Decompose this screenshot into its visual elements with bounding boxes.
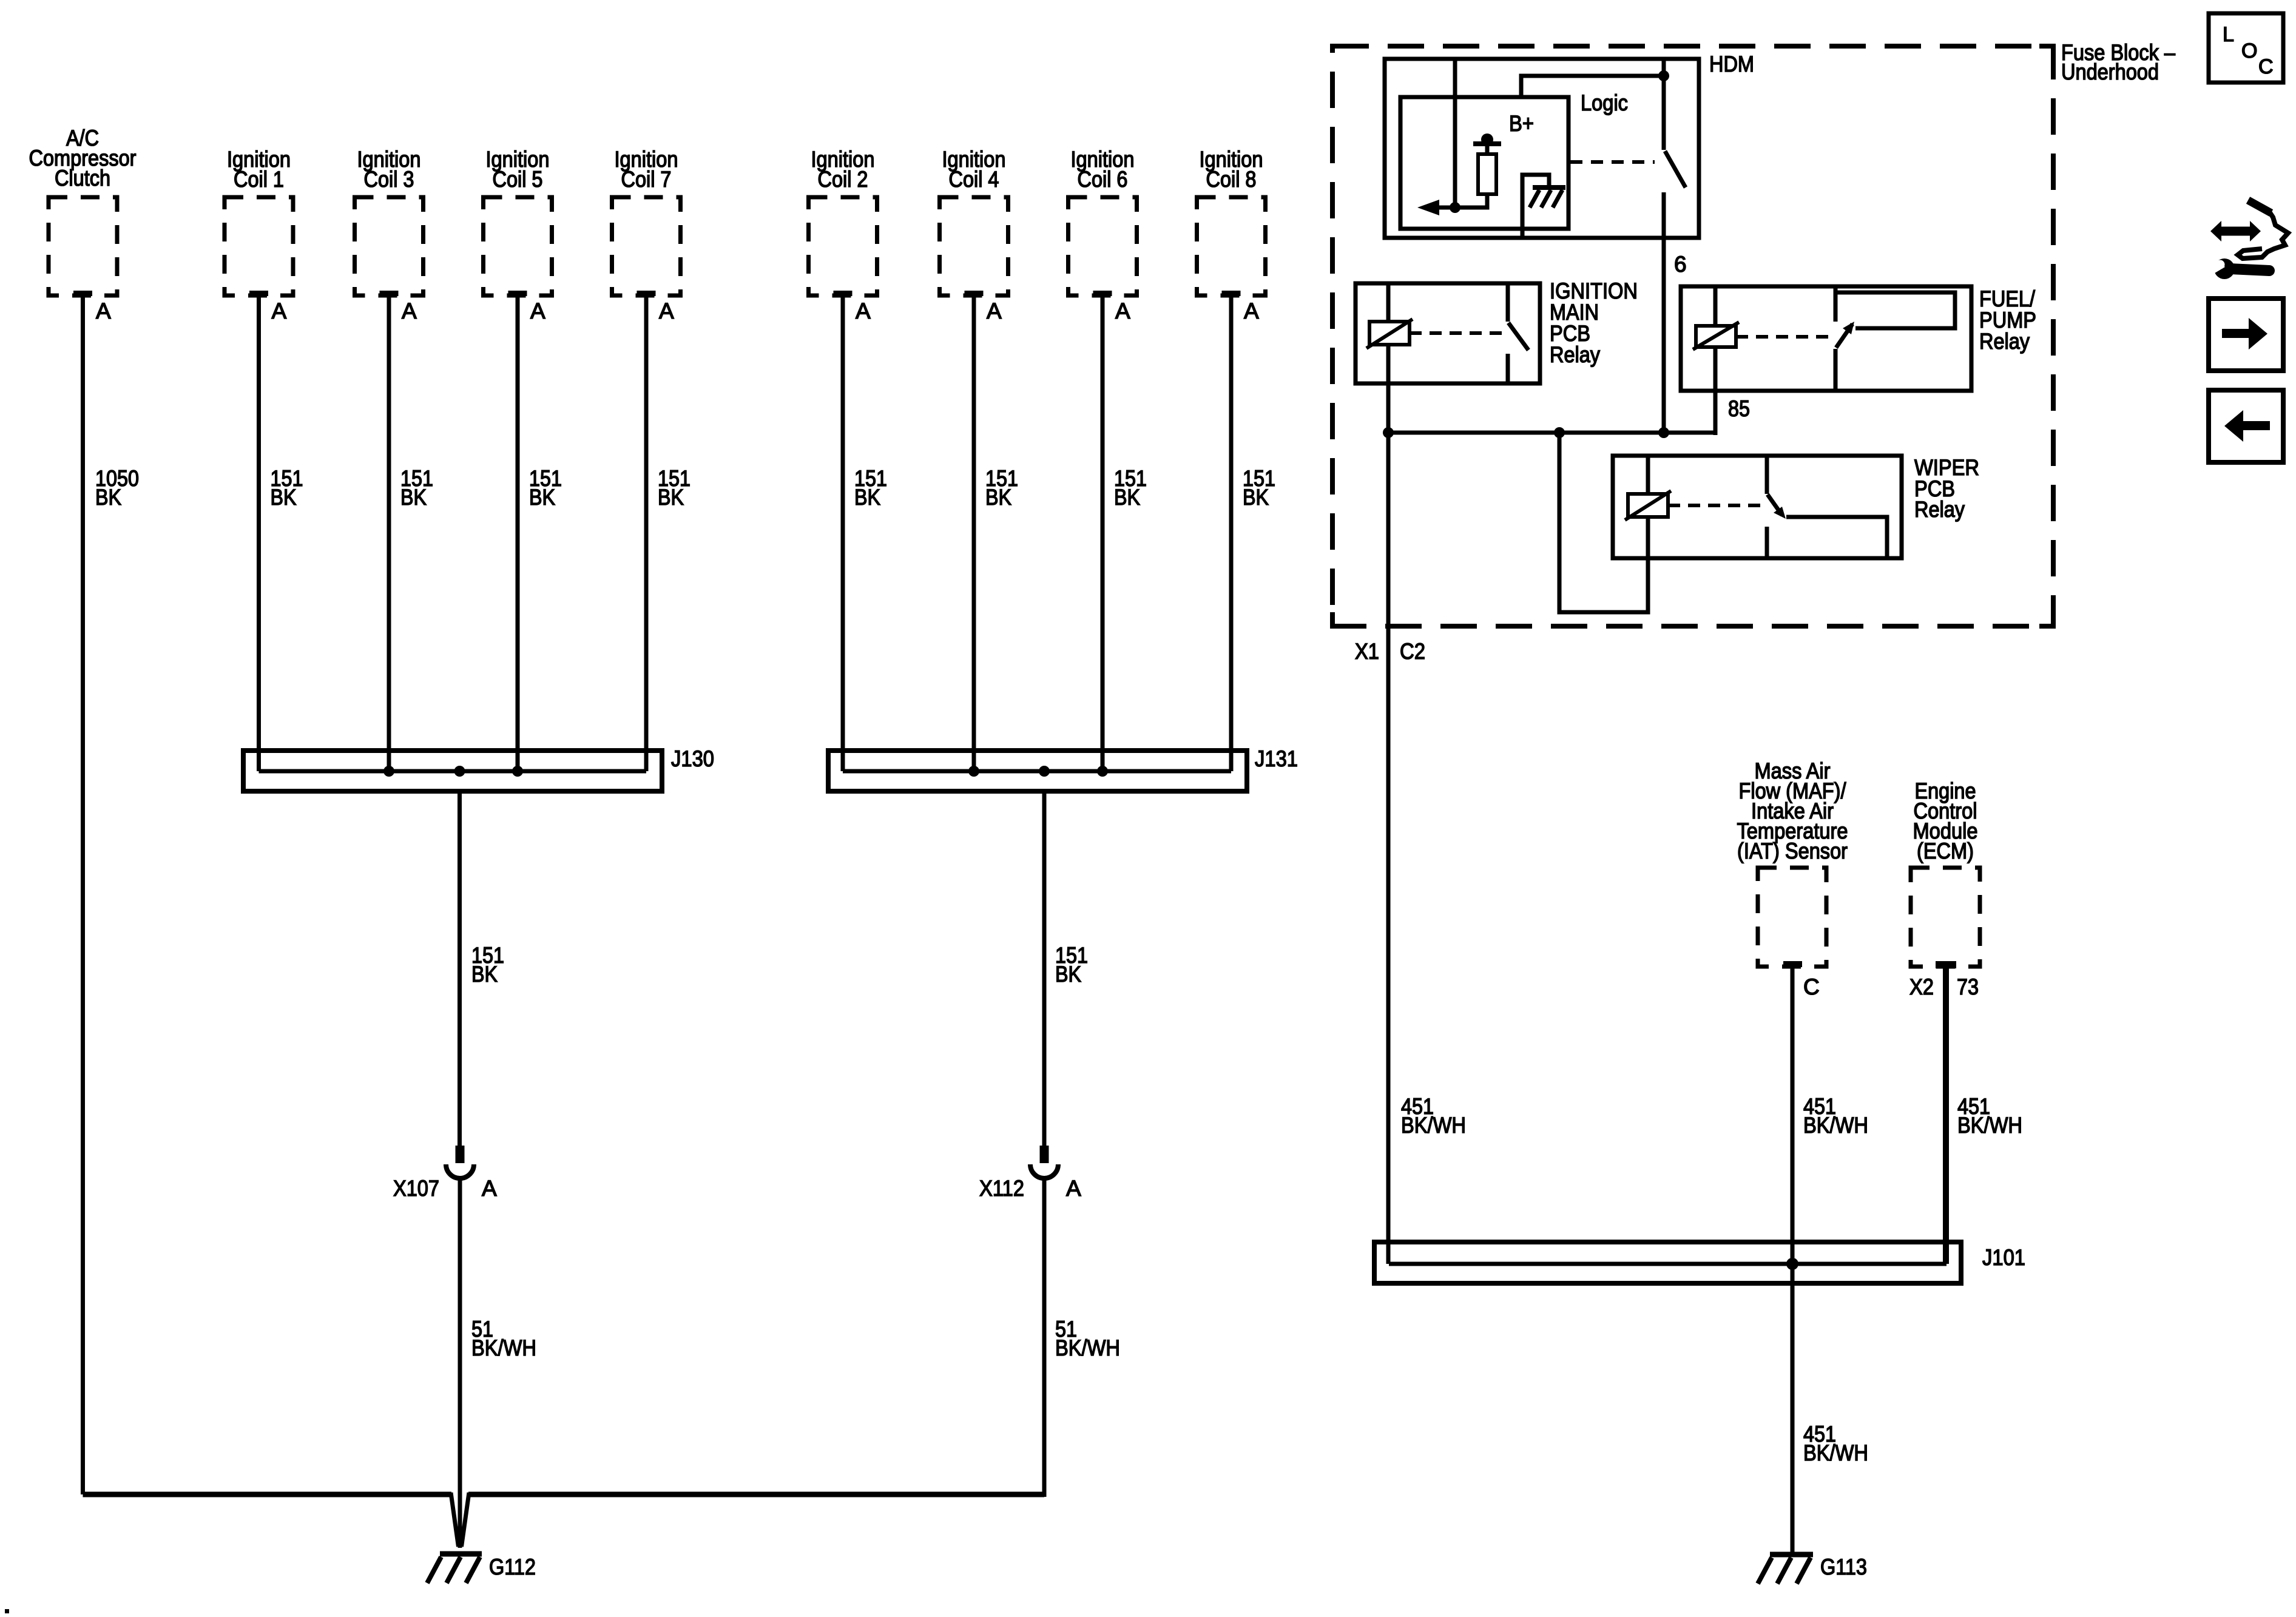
HDM switch lower contact	[1662, 192, 1666, 238]
wire label 151 BK (coil 3)	[400, 466, 433, 510]
relay coil lower lead pin 85 (fuel pump)	[1714, 347, 1718, 435]
service icon hood outline	[2238, 212, 2288, 258]
ground hook wire (HDM)	[1522, 175, 1549, 238]
relay switch upper contact (wiper)	[1765, 456, 1769, 494]
svg-text:J131: J131	[1255, 746, 1298, 771]
wire label 151 BK (coil 5)	[529, 466, 562, 510]
wire 151 BK (coil 7 down)	[644, 296, 649, 771]
FUEL/PUMP Relay box	[1681, 286, 1971, 391]
Ignition Coil 4 connector box	[940, 197, 1008, 295]
service icon wrench jaw notch	[2210, 255, 2225, 275]
ground arrow V right edge	[462, 1493, 470, 1547]
relay switch blade tip arrow (wiper)	[1774, 507, 1786, 519]
svg-text:BK/WH: BK/WH	[1803, 1440, 1868, 1465]
relay coil diagonal (fuel pump)	[1693, 322, 1739, 349]
wire label 151 BK (coil 1)	[271, 466, 303, 510]
wire 151 BK (J131 to X112)	[1042, 791, 1047, 1146]
RIGHT-SECTION	[2209, 13, 2288, 462]
svg-text:(ECM): (ECM)	[1917, 839, 1974, 863]
HDM switch blade	[1665, 151, 1686, 187]
junction dot (J130 output)	[454, 766, 465, 777]
HDM module box	[1385, 59, 1699, 238]
junction dot (B+ internal)	[1450, 202, 1460, 213]
svg-text:Coil 5: Coil 5	[493, 167, 543, 192]
svg-text:Relay: Relay	[1979, 329, 2030, 354]
wire 451 BK/WH (MAF to J101 to G113)	[1791, 967, 1795, 1552]
svg-text:BK/WH: BK/WH	[1055, 1335, 1120, 1360]
back arrow	[2224, 410, 2270, 442]
wire 51 BK/WH (X107 to G112)	[458, 1178, 462, 1548]
wire label 51 BK/WH (left)	[471, 1317, 536, 1360]
ground G113 bar	[1770, 1552, 1813, 1558]
Ignition Coil 3 pin tab	[380, 291, 399, 296]
J131 inner bus	[843, 769, 1231, 774]
relay coil lower lead / wire to bus (ignition main)	[1386, 345, 1391, 435]
svg-text:B+: B+	[1509, 111, 1534, 136]
forward arrow	[2222, 318, 2267, 349]
IGNITION MAIN PCB Relay box	[1356, 283, 1540, 383]
svg-text:Relay: Relay	[1550, 342, 1600, 367]
wire 151 BK (coil 6 down)	[1101, 296, 1105, 771]
Ignition Coil 2 label	[811, 147, 875, 192]
ground G112 bar	[440, 1551, 482, 1557]
wire 151 BK (coil 4 down)	[972, 296, 976, 771]
Ignition Coil 6 connector box	[1069, 197, 1137, 295]
relay coil return wire (wiper to bus)	[1559, 433, 1648, 612]
Engine Control Module (ECM) label	[1913, 778, 1978, 863]
svg-text:Clutch: Clutch	[55, 166, 110, 191]
svg-text:A: A	[96, 299, 111, 323]
ground G113 slash 3	[1758, 1558, 1772, 1584]
svg-text:X2: X2	[1909, 974, 1934, 999]
wire 451 BK/WH (X1 C2 to J101)	[1386, 383, 1391, 1264]
wire label 451 BK/WH (right)	[1957, 1094, 2022, 1138]
junction dot (bus wiper drop)	[1554, 427, 1565, 438]
svg-text:Coil 1: Coil 1	[234, 167, 284, 192]
service icon wrench	[2230, 269, 2269, 271]
relay contact loop (wiper)	[1786, 517, 1887, 558]
fuse block corner piece bottom-right	[2039, 612, 2053, 626]
junction dot (J101)	[1786, 1258, 1798, 1270]
Ignition Coil 5 label	[486, 147, 550, 192]
svg-text:85: 85	[1728, 396, 1750, 421]
relay contact loop (fuel pump)	[1837, 292, 1955, 328]
relay switch upper contact (fuel pump)	[1834, 286, 1838, 322]
label FUEL/PUMP Relay	[1979, 286, 2036, 354]
ECM connector box	[1911, 868, 1980, 967]
relay switch lower contact (ignition main)	[1506, 354, 1510, 383]
svg-text:C: C	[1803, 974, 1820, 999]
ground bus wire (left segment)	[83, 1492, 452, 1497]
wire 451 BK/WH (ECM to J101)	[1943, 968, 1949, 1264]
relay switch blade (fuel pump)	[1836, 324, 1852, 348]
junction dot (J131 output)	[1039, 766, 1050, 777]
svg-text:Coil 4: Coil 4	[949, 167, 999, 192]
A/C Compressor Clutch label	[29, 126, 137, 191]
Ignition Coil 1 connector box	[225, 197, 293, 295]
svg-text:C: C	[2258, 55, 2274, 78]
svg-text:J101: J101	[1982, 1245, 2025, 1270]
fuse block internal bus wire	[1388, 431, 1715, 435]
wire label 1050 BK	[95, 466, 139, 510]
svg-text:Coil 3: Coil 3	[364, 167, 414, 192]
Logic box boundary wire	[1521, 76, 1664, 97]
connector X112 pin	[1040, 1146, 1049, 1163]
svg-text:O: O	[2241, 39, 2257, 62]
connector X112 socket arc	[1030, 1164, 1058, 1178]
Ignition Coil 6 label	[1071, 147, 1135, 192]
svg-text:Coil 6: Coil 6	[1078, 167, 1128, 192]
svg-text:J130: J130	[671, 746, 714, 771]
relay coil (ignition main)	[1369, 322, 1410, 345]
LOC letters	[2223, 23, 2274, 78]
Ignition Coil 4 label	[942, 147, 1006, 192]
Ignition Coil 5 connector box	[484, 197, 552, 295]
wire label 151 BK (coil 6)	[1114, 466, 1147, 510]
J101 inner bus	[1389, 1262, 1947, 1266]
A/C pin tab	[73, 291, 92, 296]
relay coil upper lead (ignition main)	[1386, 283, 1391, 322]
Ignition Coil 2 pin tab	[834, 291, 853, 296]
service icon double arrow	[2210, 221, 2261, 241]
svg-text:Coil 7: Coil 7	[621, 167, 672, 192]
Ignition Coil 8 pin tab	[1222, 291, 1241, 296]
Ignition Coil 7 pin tab	[637, 291, 656, 296]
svg-text:BK/WH: BK/WH	[471, 1335, 536, 1360]
junction dot (Logic line)	[1658, 70, 1669, 81]
svg-text:A: A	[530, 299, 545, 323]
svg-text:Logic: Logic	[1581, 90, 1628, 115]
connector X107 socket arc	[446, 1164, 474, 1178]
svg-text:BK: BK	[471, 962, 498, 987]
wire HDM top to switch	[1662, 59, 1666, 150]
svg-text:BK/WH: BK/WH	[1957, 1113, 2022, 1138]
resistor (HDM B+)	[1478, 154, 1496, 194]
junction dot (coil3 to J130)	[383, 766, 394, 777]
svg-text:BK: BK	[658, 485, 684, 510]
junction block J131	[828, 751, 1247, 791]
svg-text:BK: BK	[95, 485, 121, 510]
service icon wrench jaw hole	[2216, 260, 2225, 269]
svg-text:Relay: Relay	[1914, 497, 1965, 522]
wire HDM pin 6 down	[1662, 238, 1666, 433]
svg-text:BK: BK	[529, 485, 555, 510]
svg-text:A: A	[482, 1176, 497, 1201]
Ignition Coil 1 label	[227, 147, 291, 192]
svg-text:73: 73	[1957, 974, 1979, 999]
service icon hood outline diagonal	[2248, 200, 2271, 213]
junction dot (bus left)	[1383, 427, 1394, 438]
relay switch upper contact (ignition main)	[1506, 283, 1510, 322]
fuse block corner piece top-right	[2039, 46, 2053, 61]
svg-text:HDM: HDM	[1709, 52, 1754, 76]
svg-text:BK: BK	[1243, 485, 1269, 510]
svg-text:X107: X107	[393, 1176, 439, 1201]
wire label 151 BK (coil 2)	[854, 466, 887, 510]
wire label 451 BK/WH (middle)	[1803, 1094, 1868, 1138]
ground arrow V left edge	[451, 1493, 459, 1547]
svg-text:BK/WH: BK/WH	[1401, 1113, 1466, 1138]
svg-text:BK: BK	[1114, 485, 1140, 510]
terminal bar above resistor	[1473, 141, 1501, 146]
Ignition Coil 6 pin tab	[1093, 291, 1112, 296]
Ignition Coil 2 connector box	[809, 197, 877, 295]
svg-text:BK: BK	[985, 485, 1011, 510]
wire 151 BK (coil 2 down)	[841, 296, 845, 771]
resistor top lead	[1485, 146, 1490, 154]
wire 151 BK (coil 5 down)	[516, 296, 520, 771]
junction dot (coil4 to J131)	[968, 766, 979, 777]
svg-text:X112: X112	[979, 1176, 1024, 1201]
relay coil diagonal (wiper)	[1625, 491, 1671, 520]
wire label 451 BK/WH (left)	[1401, 1094, 1466, 1138]
relay control dashed line (wiper)	[1668, 504, 1761, 507]
svg-text:A: A	[402, 299, 417, 323]
relay switch lower contact (fuel pump)	[1834, 349, 1838, 391]
wire label 151 BK (right mid)	[1055, 943, 1088, 987]
label Fuse Block - Underhood	[2061, 40, 2175, 84]
Ignition Coil 8 label	[1200, 147, 1263, 192]
junction block J101	[1374, 1242, 1961, 1283]
wire label 151 BK (coil 4)	[985, 466, 1018, 510]
wire 151 BK (J130 to X107)	[458, 791, 462, 1146]
svg-text:A: A	[659, 299, 674, 323]
wire HDM feed vertical	[1453, 59, 1457, 208]
svg-text:Coil 2: Coil 2	[818, 167, 868, 192]
svg-text:G112: G112	[489, 1555, 536, 1579]
LOC legend box	[2209, 13, 2283, 83]
forward arrow box	[2209, 299, 2283, 371]
LEFT-SECTION	[1332, 40, 2175, 1584]
ground G113 slash 1	[1797, 1558, 1811, 1584]
wire 1050 BK (A/C clutch down)	[81, 296, 85, 1494]
chassis ground slash 1 (HDM)	[1553, 190, 1562, 208]
svg-text:BK: BK	[400, 485, 427, 510]
svg-text:G113: G113	[1820, 1555, 1867, 1579]
ground G112 slash 2	[447, 1557, 461, 1583]
svg-text:(IAT) Sensor: (IAT) Sensor	[1737, 839, 1848, 863]
relay coil (fuel pump)	[1696, 326, 1736, 347]
svg-text:Coil 8: Coil 8	[1206, 167, 1257, 192]
label IGNITION MAIN PCB Relay	[1550, 279, 1638, 367]
wire 151 BK (coil 8 down)	[1229, 296, 1234, 771]
ground G113 slash 2	[1777, 1558, 1791, 1584]
relay control dashed line (fuel pump)	[1736, 335, 1829, 339]
relay coil diagonal (ignition main)	[1366, 319, 1413, 348]
svg-text:BK/WH: BK/WH	[1803, 1113, 1868, 1138]
wire 151 BK (coil 3 down)	[387, 296, 391, 771]
junction block J130	[243, 751, 662, 791]
chassis ground bar (HDM)	[1533, 185, 1565, 190]
junction dot (bus HDM pin6)	[1658, 427, 1669, 438]
back arrow box	[2209, 390, 2283, 462]
wire label 151 BK (left mid)	[471, 943, 504, 987]
svg-text:A: A	[272, 299, 287, 323]
junction dot (coil6 to J131)	[1097, 766, 1108, 777]
wire to arrow (B+ internal)	[1427, 194, 1487, 208]
svg-text:A: A	[856, 299, 871, 323]
junction dot (coil5 to J130)	[512, 766, 523, 777]
Ignition Coil 8 connector box	[1197, 197, 1266, 295]
svg-text:A: A	[1066, 1176, 1081, 1201]
chassis ground slash 2 (HDM)	[1541, 190, 1551, 208]
MAF/IAT sensor connector box	[1758, 868, 1826, 967]
arrowhead (B+ internal, pointing left)	[1417, 200, 1439, 215]
A/C Compressor Clutch connector box	[49, 197, 117, 295]
wire label 151 BK (coil 8)	[1243, 466, 1275, 510]
Mass Air Flow (MAF)/Intake Air Temperature (IAT) Sensor label	[1737, 758, 1848, 863]
svg-text:Underhood: Underhood	[2061, 59, 2159, 84]
svg-text:A: A	[987, 299, 1002, 323]
relay switch blade (wiper)	[1768, 495, 1782, 515]
relay switch blade tip arrow (fuel pump)	[1843, 322, 1854, 334]
svg-text:A: A	[1115, 299, 1130, 323]
wire label 51 BK/WH (right)	[1055, 1317, 1120, 1360]
wire label 451 BK/WH (bottom)	[1803, 1422, 1868, 1465]
MAF pin tab	[1783, 961, 1802, 967]
relay switch blade (ignition main)	[1508, 323, 1528, 350]
ECM pin tab	[1936, 961, 1956, 968]
relay control dashed line (ignition main)	[1410, 331, 1505, 335]
relay coil upper lead (wiper)	[1646, 456, 1650, 494]
terminal dot above resistor	[1481, 133, 1493, 146]
Ignition Coil 3 connector box	[355, 197, 424, 295]
svg-text:C2: C2	[1400, 639, 1425, 664]
svg-text:BK: BK	[1055, 962, 1081, 987]
Ignition Coil 4 pin tab	[965, 291, 984, 296]
WIPER PCB Relay box	[1613, 456, 1902, 558]
B+ inner box	[1400, 97, 1568, 229]
wire label 151 BK (coil 7)	[658, 466, 690, 510]
Ignition Coil 7 label	[615, 147, 678, 192]
chassis ground slash 3 (HDM)	[1530, 190, 1539, 208]
wire 51 BK/WH (X112 down)	[1042, 1178, 1047, 1497]
svg-text:BK: BK	[271, 485, 297, 510]
Fuse Block - Underhood dashed enclosure	[1332, 46, 2053, 626]
relay switch lower contact (wiper)	[1765, 527, 1769, 558]
ground bus wire (right segment)	[468, 1492, 1044, 1497]
J130 inner bus	[259, 769, 647, 774]
page mark dot	[5, 1609, 9, 1613]
svg-text:X1: X1	[1355, 639, 1379, 664]
relay coil upper lead (fuel pump)	[1714, 286, 1718, 326]
Ignition Coil 7 connector box	[612, 197, 681, 295]
Ignition Coil 1 pin tab	[249, 291, 268, 296]
Ignition Coil 5 pin tab	[508, 291, 527, 296]
svg-text:L: L	[2223, 23, 2234, 46]
svg-text:BK: BK	[854, 485, 880, 510]
connector X107 pin	[456, 1146, 465, 1163]
label WIPER PCB Relay	[1914, 455, 1979, 522]
Ignition Coil 3 label	[357, 147, 421, 192]
fuse block corner piece bottom-left	[1332, 612, 1346, 626]
HDM control dashed line	[1570, 160, 1655, 164]
svg-text:A: A	[1244, 299, 1259, 323]
relay coil (wiper)	[1628, 494, 1668, 517]
svg-text:6: 6	[1674, 252, 1687, 277]
service icon wrench head	[2214, 258, 2235, 279]
wire 151 BK (coil 1 down)	[257, 296, 261, 771]
ground G112 slash 1	[466, 1557, 480, 1583]
ground G112 slash 3	[427, 1557, 441, 1583]
